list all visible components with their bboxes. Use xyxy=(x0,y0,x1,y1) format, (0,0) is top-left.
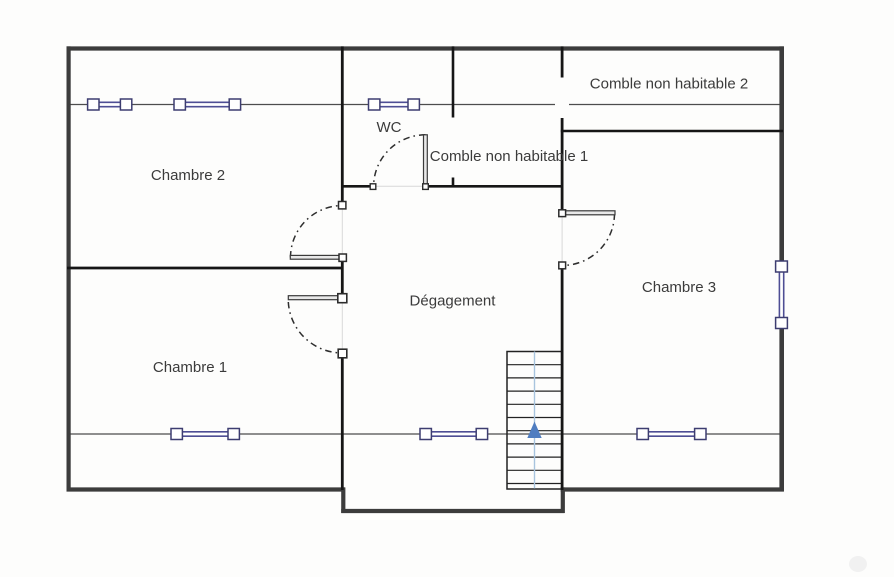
outer wall left xyxy=(66,46,70,491)
svg-text:Chambre 2: Chambre 2 xyxy=(151,167,225,184)
wall A bottom segment xyxy=(341,358,344,490)
wall B horizontal y=268 (Chambre 2 | Chambre 1) xyxy=(67,267,344,270)
outer wall bottom middle (Degagement) xyxy=(341,509,564,513)
wall E segment below line gap xyxy=(561,118,564,210)
window W2 Chambre 2 right: connector xyxy=(182,101,234,108)
outer wall step down left xyxy=(341,487,345,513)
outer wall bottom right (Chambre 3) xyxy=(561,487,784,491)
svg-text:Comble non habitable 1: Comble non habitable 1 xyxy=(430,148,588,165)
window W5: square left xyxy=(420,429,431,440)
staircase walk line xyxy=(534,352,536,489)
door WC: hinge square right xyxy=(423,184,429,190)
attic height line top xyxy=(68,104,780,106)
window W4: square left xyxy=(171,429,182,440)
door Chambre 1: arc xyxy=(288,302,338,353)
window W7: square top xyxy=(776,261,788,272)
window W3 WC: connector xyxy=(376,101,412,108)
window W1 Chambre 2 left: connector xyxy=(96,101,124,108)
door Chambre 3: hinge square top xyxy=(559,210,566,217)
attic height line bottom xyxy=(68,433,780,435)
outer wall top xyxy=(67,46,784,50)
wall D right part xyxy=(428,185,564,188)
staircase up arrow xyxy=(527,422,541,439)
wall D opening thin line (WC door) xyxy=(371,185,429,187)
svg-text:Comble non habitable 2: Comble non habitable 2 xyxy=(590,76,748,93)
wall A opening thin line (Chambre 2 door) xyxy=(341,202,343,261)
door Chambre 1: leaf xyxy=(288,296,338,300)
wall C vertical x=453 (WC | Comble 1) top segment xyxy=(452,46,455,117)
window W1: square right xyxy=(120,99,131,110)
door Chambre 1: hinge square top xyxy=(338,294,347,303)
door Chambre 1: jamb square bottom xyxy=(338,349,347,358)
wall D horizontal y=186 (WC bottom) left part xyxy=(341,185,371,188)
window W2: square left xyxy=(174,99,185,110)
outer wall step up right xyxy=(561,487,565,513)
faint smudge bottom right xyxy=(849,556,867,572)
wall E opening thin line (Chambre 3 door) xyxy=(561,210,563,268)
door Chambre 2: jamb square top xyxy=(339,202,346,209)
window W6: square left xyxy=(637,429,648,440)
window W5: square right xyxy=(476,429,487,440)
door WC: leaf xyxy=(424,135,428,185)
wall A middle segment between doors xyxy=(341,261,344,294)
svg-text:Chambre 3: Chambre 3 xyxy=(642,279,716,296)
window W7: square bottom xyxy=(776,318,788,329)
window W4: square right xyxy=(228,429,239,440)
wall A opening thin line (Chambre 1 door) xyxy=(341,294,343,358)
door Chambre 2: arc xyxy=(291,206,343,258)
wall F horizontal y=131 (Comble 2 | Chambre 3) xyxy=(561,130,783,133)
window W6 Chambre 3: connector xyxy=(645,431,698,438)
window W3: square right xyxy=(408,99,419,110)
wall C stub above WC wall xyxy=(452,178,455,187)
svg-text:Chambre 1: Chambre 1 xyxy=(153,359,227,376)
wall A vertical x=342 top segment (Chambre2 | WC/Degagement) xyxy=(341,46,344,202)
svg-text:Dégagement: Dégagement xyxy=(410,293,497,310)
wall E vertical x=562 top segment xyxy=(561,46,564,77)
window W4 Chambre 1: connector xyxy=(179,431,231,438)
door Chambre 2: leaf xyxy=(290,255,340,259)
door Chambre 2: hinge square bottom xyxy=(339,254,346,261)
wall E bottom segment xyxy=(561,268,564,490)
window W5 Degagement: connector xyxy=(428,431,480,438)
staircase xyxy=(507,352,562,490)
svg-text:WC: WC xyxy=(377,119,402,136)
door Chambre 3: arc xyxy=(563,214,615,266)
window W2: square right xyxy=(229,99,240,110)
outer wall bottom left (Chambre 1) xyxy=(67,487,346,491)
window W3: square left xyxy=(369,99,380,110)
window W7 right wall vertical: connector xyxy=(778,269,785,321)
window W6: square right xyxy=(695,429,706,440)
outer wall right xyxy=(779,46,784,491)
door WC: arc xyxy=(374,135,426,187)
door WC: jamb square left xyxy=(370,184,376,190)
door Chambre 3: jamb square bottom xyxy=(559,262,566,269)
window W1: square left xyxy=(88,99,99,110)
door Chambre 3: leaf xyxy=(565,211,615,215)
